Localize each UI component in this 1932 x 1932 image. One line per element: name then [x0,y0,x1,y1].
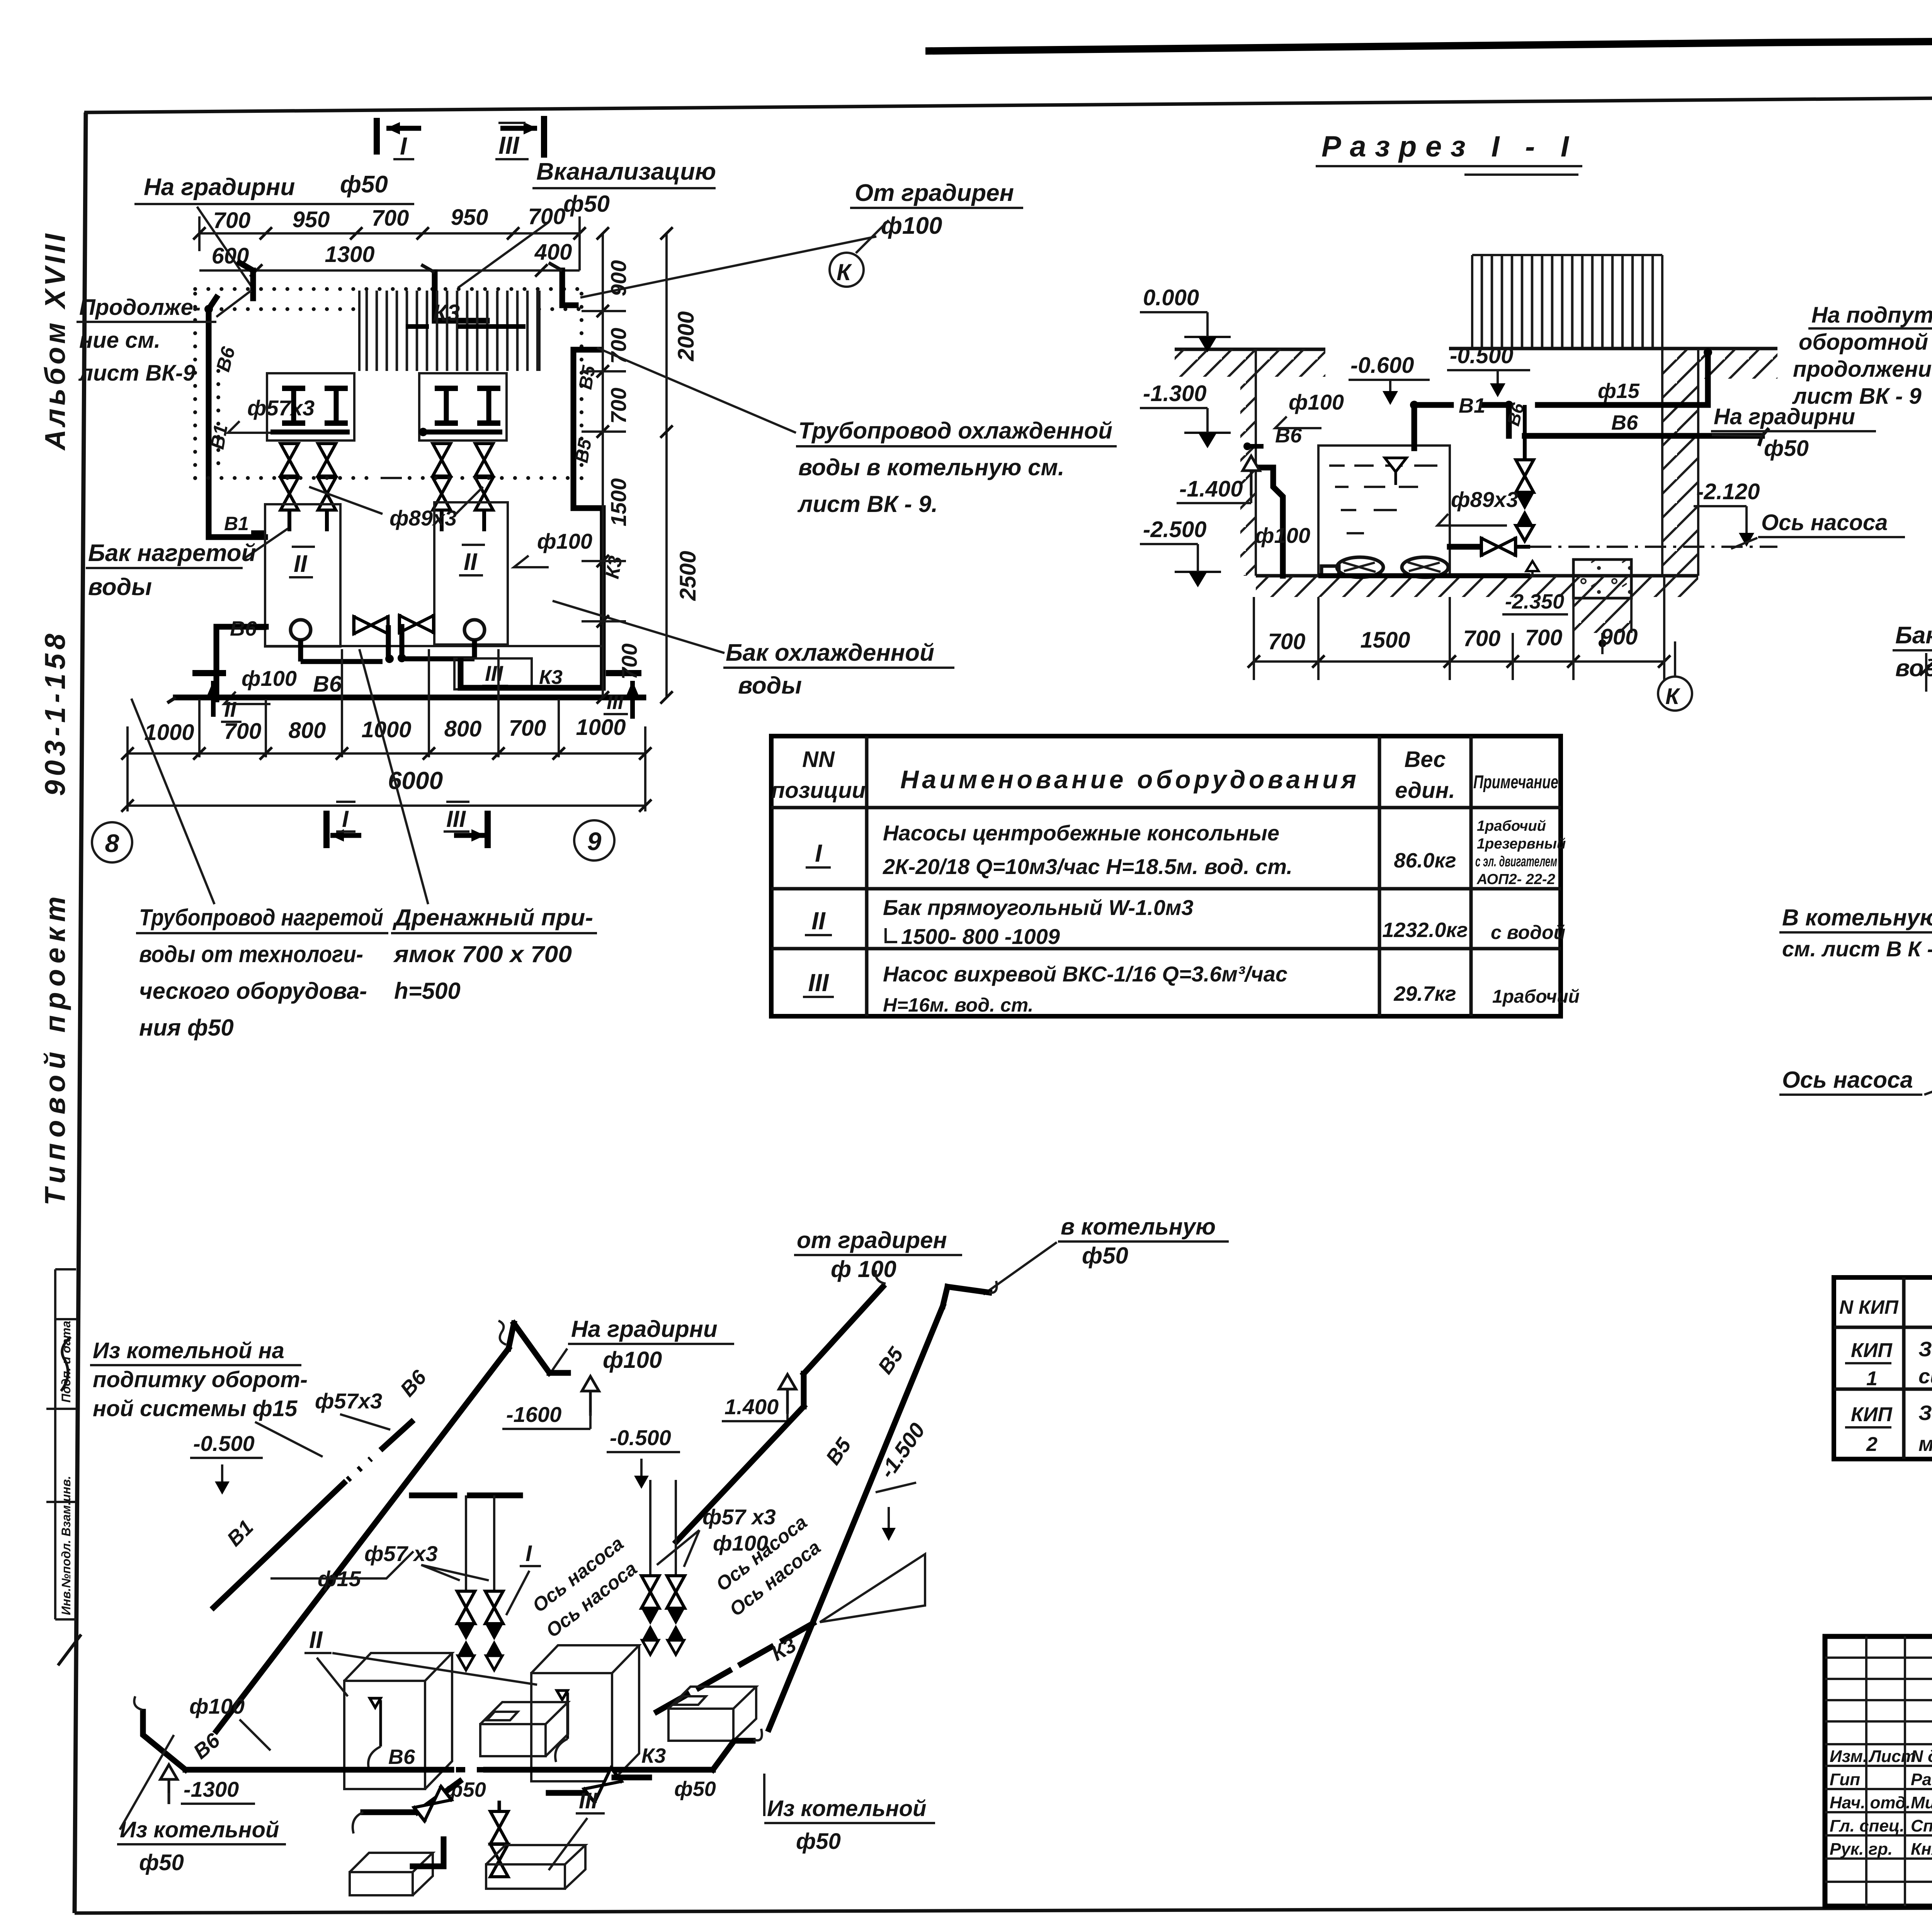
svg-text:Трубопровод охлажденной: Трубопровод охлажденной [798,418,1112,444]
grid bubble K section I-I [1658,677,1692,711]
svg-text:ф50: ф50 [674,1777,716,1801]
svg-text:Ось насоса: Ось насоса [1761,510,1888,535]
svg-text:II: II [224,697,237,721]
main diagonal B6 up [216,1323,568,1731]
svg-text:позиции: позиции [771,778,866,803]
level -1.600 [582,1376,599,1416]
svg-text:Раскин: Раскин [1911,1770,1932,1789]
svg-text:ямок 700 х 700: ямок 700 х 700 [393,941,572,967]
svg-text:900: 900 [1600,624,1638,650]
svg-text:К3: К3 [539,666,563,689]
svg-text:1рабочий: 1рабочий [1477,818,1546,834]
grid bubble K [830,253,864,287]
svg-text:един.: един. [1395,778,1455,803]
svg-text:Бак прямоугольный W-1.0м3: Бак прямоугольный W-1.0м3 [883,895,1194,920]
I-beam symbols left tank [282,388,305,423]
entry pipe bottom left [143,1712,185,1770]
svg-text:1: 1 [1866,1367,1878,1390]
vertical drops group 1 [466,1495,494,1592]
pipe B1 horizontal into lower tank [209,450,265,537]
svg-text:Гип: Гип [1830,1770,1860,1789]
svg-text:Трубопровод нагретой: Трубопровод нагретой [139,905,383,930]
svg-text:В1: В1 [1459,394,1485,417]
svg-text:-2.120: -2.120 [1696,479,1760,504]
svg-text:ния ф50: ния ф50 [139,1015,234,1041]
svg-text:ф50: ф50 [1082,1243,1128,1269]
svg-text:ф89х3: ф89х3 [389,506,457,530]
svg-text:III: III [808,969,829,997]
svg-text:лист ВК-9: лист ВК-9 [78,361,196,386]
svg-text:Вканализацию: Вканализацию [536,158,716,185]
hatched tower (wall above ground) [1472,255,1662,349]
svg-text:II: II [294,551,308,577]
bottom dim row: 1000 700 800 1000 800 700 1000 [144,715,626,745]
svg-text:II: II [464,549,478,575]
svg-text:1500- 800 -1009: 1500- 800 -1009 [901,924,1060,949]
page frame bottom border [75,1906,1932,1913]
right vertical dim line 2 [665,233,668,697]
top wall pipe stub 2 (В канализацию) [435,272,487,321]
main B6 horizontal bottom pipe [176,695,643,701]
ground line [1175,349,1777,349]
svg-text:ф100: ф100 [1255,523,1310,548]
svg-text:В6: В6 [1611,411,1638,434]
B6 pipe to right [1525,433,1762,439]
section marker strip above plan [377,116,544,160]
ground hatch left [1175,349,1325,377]
svg-text:подпитку оборот-: подпитку оборот- [93,1367,308,1392]
diagonal B5 to в котельную [769,1287,989,1729]
tank in section [1318,446,1450,576]
water zigzag [1329,466,1437,533]
svg-text:1.400: 1.400 [724,1395,779,1419]
svg-text:К3: К3 [641,1744,666,1767]
svg-text:I: I [526,1541,532,1566]
pump room mid rectangle [340,502,434,646]
svg-text:ф50: ф50 [563,191,610,217]
svg-text:1000: 1000 [361,717,411,742]
leader дренажный [359,649,428,904]
svg-text:ф100: ф100 [537,529,592,553]
svg-text:700: 700 [372,206,409,231]
long bottom horizontal pipe [185,1767,451,1773]
svg-text:ф50: ф50 [340,171,388,198]
svg-text:лист ВК - 9: лист ВК - 9 [1792,384,1922,409]
K3 vertical pipe right [573,508,603,687]
section I-I bottom dims [1268,624,1638,654]
left wall dotted [193,294,197,479]
diagonal B1 [214,1483,344,1607]
left margin stamp column boxes [55,1269,76,1619]
mid wall dotted [195,476,580,480]
small pipes near slabs [413,1839,444,1866]
svg-text:III: III [607,691,624,714]
K3 channel hatched [359,291,539,371]
left wall [1255,349,1257,576]
svg-text:Ось насоса: Ось насоса [1782,1067,1913,1093]
svg-text:Насосы центробежные консольн: Насосы центробежные консольные [883,821,1279,845]
svg-text:950: 950 [293,207,330,232]
svg-text:700: 700 [1268,629,1306,654]
left small table grid [1825,1658,1932,1882]
svg-text:Дренажный при-: Дренажный при- [392,905,593,930]
svg-text:лист ВК - 9.: лист ВК - 9. [797,491,938,517]
svg-text:в котельную: в котельную [1061,1214,1216,1240]
svg-text:Бак охлажденной: Бак охлажденной [726,639,934,666]
left margin signature squiggle [61,1337,71,1391]
svg-text:1000: 1000 [576,715,626,740]
svg-text:с эл. двигателем: с эл. двигателем [1475,854,1557,870]
svg-text:III: III [446,806,466,832]
svg-text:Из котельной: Из котельной [767,1796,926,1821]
svg-text:800: 800 [289,718,326,743]
svg-text:700: 700 [1525,625,1563,650]
svg-text:воды: воды [738,672,802,699]
leader from На градирни to plan wall [197,207,251,286]
svg-text:2К-20/18 Q=10м3/час Н=18.5м.: 2К-20/18 Q=10м3/час Н=18.5м. вод. ст. [883,854,1293,879]
svg-text:-2.350: -2.350 [1505,590,1564,613]
svg-text:Примечание: Примечание [1473,772,1558,793]
svg-text:2000: 2000 [673,311,699,361]
svg-text:Вес: Вес [1404,747,1446,772]
vertical pipe to tank [1412,405,1417,448]
svg-text:ф100: ф100 [603,1347,662,1373]
svg-text:-2.500: -2.500 [1143,517,1206,542]
break squiggle top [498,1321,506,1345]
svg-text:ние см.: ние см. [79,328,160,353]
svg-text:Н=16м. вод. ст.: Н=16м. вод. ст. [883,994,1033,1016]
svg-text:От градирен: От градирен [855,180,1014,206]
svg-text:ф57 х3: ф57 х3 [364,1541,438,1566]
tank box 2 [531,1645,639,1781]
svg-text:В1: В1 [206,423,232,451]
svg-text:1232.0кг: 1232.0кг [1382,918,1468,942]
svg-text:Гл. спец.: Гл. спец. [1830,1816,1905,1835]
svg-text:Князева: Князева [1911,1840,1932,1859]
vertical drops group 2 [650,1480,676,1577]
svg-text:см. лист В К - 9: см. лист В К - 9 [1782,937,1932,961]
upper tank I rect left [267,373,354,440]
svg-text:В6: В6 [313,672,342,697]
pump block 1 [480,1702,568,1756]
svg-text:N докум.: N докум. [1911,1747,1932,1766]
svg-text:Закладная деталь для устано: Закладная деталь для установки [1918,1401,1932,1425]
svg-text:700: 700 [509,716,546,741]
svg-text:II: II [309,1627,323,1653]
top dimension row 1: 700 950 700 950 700 [213,204,566,233]
top wall pipe stub 3 (От градирен) [562,270,576,305]
page frame left border [75,112,86,1913]
svg-text:86.0кг: 86.0кг [1394,849,1456,872]
valve stacks below tanks (4) [281,444,298,476]
svg-text:III: III [485,661,503,685]
svg-text:К: К [1665,684,1680,709]
svg-text:воды от технологи-: воды от технологи- [139,941,363,967]
svg-text:2500: 2500 [675,551,701,601]
svg-text:ф100: ф100 [881,213,942,239]
svg-text:400: 400 [534,240,572,265]
svg-text:1резервный: 1резервный [1477,836,1566,852]
svg-text:АОП2- 22-2: АОП2- 22-2 [1476,871,1555,888]
top dimension row 2: 600 1300 400 [212,240,572,269]
pump unit left: circle + gate [291,620,311,640]
svg-text:В котельную: В котельную [1782,905,1932,930]
svg-text:903-1-158: 903-1-158 [39,633,71,796]
diagonal to от градирен (upper right) [676,1287,883,1542]
svg-text:Закладная деталь для устан: Закладная деталь для установки [1918,1338,1932,1361]
small arrow -2.350 [1531,564,1534,576]
svg-text:ф100: ф100 [241,666,297,690]
B6 bracket left [216,627,266,699]
concrete block [1573,560,1631,598]
svg-text:-1.400: -1.400 [1179,476,1243,502]
svg-text:воды в котельную см.: воды в котельную см. [798,454,1065,480]
right wall hatched [1662,349,1698,576]
svg-text:0.000: 0.000 [1143,285,1199,310]
pumps on floor [1321,566,1339,576]
svg-text:манометра: манометра [1918,1432,1932,1456]
svg-text:h=500: h=500 [394,978,461,1004]
svg-text:ф57 х3: ф57 х3 [702,1505,776,1529]
svg-text:сигнализатора уровня: сигнализатора уровня [1918,1365,1932,1388]
svg-text:II: II [811,907,826,935]
svg-text:ной системы ф15: ной системы ф15 [93,1396,298,1421]
svg-text:оборотной системы: оборотной системы [1799,330,1932,355]
svg-text:I: I [400,132,407,160]
svg-text:Спирин: Спирин [1911,1816,1932,1835]
valve stack in section [1523,405,1527,460]
svg-text:продолжение см.: продолжение см. [1793,357,1932,382]
leader Бак охлажденной to plan [553,601,724,653]
svg-text:К: К [837,259,852,285]
upper tank I rect right [419,373,507,440]
svg-text:NN: NN [802,747,835,772]
svg-text:-0.500: -0.500 [610,1425,671,1450]
top wall pipe stub 1 (На градирни) [240,263,253,298]
svg-text:На градирни: На градирни [144,174,295,201]
svg-text:9: 9 [587,827,602,855]
svg-text:2: 2 [1866,1433,1878,1456]
svg-text:700: 700 [617,643,641,679]
pump block 2 [668,1687,756,1741]
svg-text:1300: 1300 [325,242,374,267]
svg-text:В6: В6 [388,1745,415,1769]
section III marker right [606,670,641,676]
level 1.400 [779,1374,796,1414]
drain pit III rect [454,658,532,689]
svg-text:от градирен: от градирен [797,1227,947,1253]
svg-text:с водой: с водой [1491,922,1565,943]
svg-text:I: I [342,806,349,832]
svg-text:Из котельной: Из котельной [120,1817,279,1842]
svg-text:ф50: ф50 [1764,436,1809,461]
svg-text:III: III [579,1788,598,1813]
svg-text:900: 900 [606,260,631,296]
leader Бак нагретой to tank [243,529,288,560]
leader трубопровод нагретой [131,699,214,904]
svg-text:ф100: ф100 [189,1694,245,1718]
pipe B1 horizontal [1414,405,1509,436]
svg-text:-1600: -1600 [506,1402,561,1427]
-1300 level [160,1765,177,1804]
svg-text:700: 700 [1463,626,1501,651]
leader from В канализацию to plan [458,222,549,288]
svg-text:Насос вихревой ВКС-1/16 Q=3: Насос вихревой ВКС-1/16 Q=3.6м³/час [883,962,1287,986]
right vertical dim line 1 [602,233,604,697]
plan top wall dotted rows [195,287,582,291]
foundation slabs [350,1853,433,1895]
K3 diagonal right [657,1621,817,1712]
svg-text:ф57х3: ф57х3 [315,1389,382,1413]
lower tank II right [434,502,508,645]
svg-text:6000: 6000 [388,767,443,794]
svg-text:8: 8 [105,829,119,857]
svg-text:-0.500: -0.500 [193,1431,255,1456]
svg-text:Михалевский: Михалевский [1911,1793,1932,1812]
funnel in tank [1385,458,1406,485]
section II marker left [192,670,226,676]
svg-text:Бак нагретой: Бак нагретой [1895,622,1932,649]
svg-text:700: 700 [224,719,262,744]
svg-text:700: 700 [213,208,251,233]
vertical bowtie chain bottom [498,1801,501,1812]
plan pipe B1 vertical left [209,298,216,450]
svg-text:-0.600: -0.600 [1350,353,1414,378]
svg-text:ф 100: ф 100 [831,1256,896,1282]
page frame top scan band [925,37,1932,51]
svg-text:В6: В6 [230,617,257,640]
svg-text:ф15: ф15 [1598,379,1640,403]
svg-text:ф50: ф50 [796,1829,841,1854]
svg-text:ческого оборудова-: ческого оборудова- [139,978,367,1004]
svg-text:-1.300: -1.300 [1143,381,1206,406]
svg-text:Инв.№подл. Взам.инв.: Инв.№подл. Взам.инв. [59,1476,73,1615]
gate valves on lower branch [413,1785,452,1822]
svg-text:В5: В5 [575,364,600,391]
svg-text:700: 700 [606,328,631,364]
svg-text:1500: 1500 [606,478,631,527]
gate valve on suction [1450,544,1480,550]
svg-text:В1: В1 [224,513,249,534]
svg-text:Лист: Лист [1868,1747,1916,1766]
svg-text:воды: воды [88,574,152,600]
floor line [1256,574,1698,578]
right side pipe B5 vertical [573,350,601,508]
svg-text:На градирни: На градирни [571,1316,718,1342]
pipe f100 left with elbow [1273,468,1283,576]
svg-text:29.7кг: 29.7кг [1393,982,1456,1005]
leader От градирен to plan top-right elbow [580,236,876,298]
ground hatch right [1662,349,1777,379]
svg-text:Наименование оборудования: Наименование оборудования [900,765,1356,794]
lower branch pipes from tanks [363,1810,417,1815]
svg-text:ф50: ф50 [139,1850,184,1875]
svg-text:700: 700 [528,204,566,229]
svg-text:К3: К3 [433,300,460,326]
grid bubble 8 [92,822,132,862]
svg-text:Изм.: Изм. [1830,1747,1867,1766]
svg-text:ф100: ф100 [1289,390,1344,414]
svg-text:ф89х3: ф89х3 [1451,487,1518,512]
svg-text:700: 700 [606,388,631,423]
tank box 1 [344,1653,452,1789]
svg-text:I: I [815,839,822,867]
axis dash-dot [1530,546,1777,548]
svg-text:КИП: КИП [1851,1339,1893,1362]
lower tank II left [265,504,340,646]
svg-text:1000: 1000 [144,720,194,745]
right wall dotted [580,294,583,479]
section marker strip below plan [327,802,488,848]
svg-text:На подпутку: На подпутку [1811,303,1932,328]
horizontal dashed pipe mid [412,1493,520,1498]
svg-text:1рабочий: 1рабочий [1492,986,1580,1007]
svg-text:Рук. гр.: Рук. гр. [1830,1840,1893,1859]
svg-text:950: 950 [451,205,488,230]
svg-text:800: 800 [444,716,482,742]
svg-text:Продолже-: Продолже- [79,295,201,320]
svg-text:В5: В5 [571,437,596,464]
svg-text:-1300: -1300 [184,1777,239,1801]
K3 horizontal lower [461,661,603,688]
svg-text:1500: 1500 [1360,628,1410,653]
svg-text:КИП: КИП [1851,1403,1893,1426]
right small triangle flag [820,1554,925,1622]
svg-text:Нач. отд.: Нач. отд. [1830,1793,1911,1812]
svg-text:III: III [498,131,520,159]
svg-text:ф57х3: ф57х3 [247,396,315,420]
pipe f15 right [1538,354,1708,405]
svg-text:N КИП: N КИП [1839,1296,1899,1318]
grid bubble 9 [574,820,614,861]
svg-text:-0.500: -0.500 [1450,343,1513,368]
svg-text:Бак нагретой: Бак нагретой [88,540,256,566]
svg-text:Из котельной на: Из котельной на [93,1338,284,1363]
pump unit right [464,620,485,640]
page frame top border [84,92,1932,112]
